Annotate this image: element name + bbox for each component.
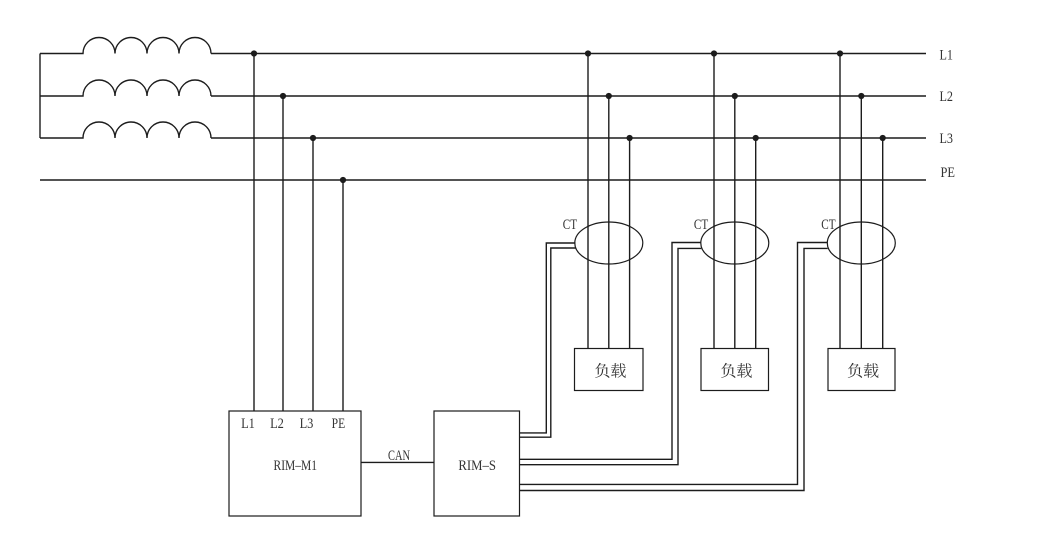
wire left bus [39, 54, 41, 139]
wire L1 to load 1 [587, 54, 589, 349]
wire CT1 secondary b [520, 248, 577, 437]
wire L3 [211, 137, 926, 139]
wire L2 to load 1 [608, 96, 610, 349]
wire L3 to load 2 [755, 138, 757, 349]
load 2 text [721, 363, 735, 378]
wire L1 [211, 53, 926, 55]
load 1 text [595, 363, 609, 378]
CT1 ellipse [575, 222, 643, 264]
svg-text:L2: L2 [940, 89, 954, 105]
wire L2 to load 2 [734, 96, 736, 349]
junction dot L2/RIM [280, 93, 286, 99]
junction dot PE/RIM [340, 177, 346, 183]
box RIM-S [434, 411, 520, 516]
wire L3 tap to RIM-M1 [312, 138, 314, 411]
junction dot L3/CT3 [880, 135, 886, 141]
svg-text:CAN: CAN [388, 448, 410, 464]
wire CAN link [361, 461, 434, 463]
junction dot L3/CT2 [753, 135, 759, 141]
junction dot L1/CT1 [585, 50, 591, 56]
inductor L1 [40, 38, 211, 54]
wire L2 to load 3 [860, 96, 862, 349]
junction dot L2/CT3 [858, 93, 864, 99]
load box 2 [701, 349, 769, 391]
junction dot L3/CT1 [627, 135, 633, 141]
wire L3 to load 3 [882, 138, 884, 349]
wire CT2 secondary b [520, 248, 702, 464]
junction dot L1/RIM [251, 50, 257, 56]
wire CT2 secondary a [520, 243, 702, 460]
svg-text:L3: L3 [940, 131, 954, 147]
wire L2 tap to RIM-M1 [282, 96, 284, 411]
svg-text:CT: CT [694, 217, 708, 233]
CT2 ellipse [701, 222, 769, 264]
junction dot L2/CT2 [732, 93, 738, 99]
junction dot L1/CT3 [837, 50, 843, 56]
wire PE tap to RIM-M1 [342, 180, 344, 411]
junction dot L1/CT2 [711, 50, 717, 56]
wire L1 to load 2 [713, 54, 715, 349]
inductor L3 [40, 122, 211, 138]
svg-text:RIM–M1: RIM–M1 [274, 458, 318, 474]
junction dot L2/CT1 [606, 93, 612, 99]
wire L1 to load 3 [839, 54, 841, 349]
wire CT3 secondary b [520, 248, 828, 490]
svg-text:PE: PE [332, 416, 346, 432]
CT3 ellipse [827, 222, 895, 264]
svg-text:RIM–S: RIM–S [458, 458, 496, 474]
svg-text:CT: CT [821, 217, 835, 233]
load box 3 [828, 349, 895, 391]
wire CT1 secondary a [520, 243, 576, 433]
inductor L2 [40, 80, 211, 96]
wire CT3 secondary a [520, 243, 828, 485]
svg-text:L1: L1 [940, 48, 954, 64]
wire L1 tap to RIM-M1 [253, 54, 255, 412]
svg-text:PE: PE [941, 165, 956, 181]
load 3 text [848, 363, 862, 378]
wire PE [40, 179, 926, 181]
junction dot L3/RIM [310, 135, 316, 141]
wire L3 to load 1 [629, 138, 631, 349]
svg-text:CT: CT [563, 217, 577, 233]
wire L2 [211, 95, 926, 97]
svg-text:L1: L1 [241, 416, 255, 432]
box RIM-M1 [229, 411, 361, 516]
svg-text:L2: L2 [270, 416, 284, 432]
load box 1 [575, 349, 644, 391]
svg-text:L3: L3 [300, 416, 314, 432]
